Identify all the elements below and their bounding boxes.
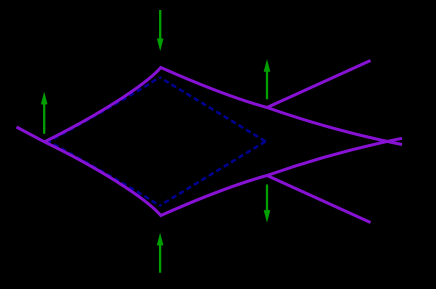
wire lower beam chain A-B-D-F-end: [17, 127, 403, 216]
dashed apparent path upper-right (node V to peak): [160, 77, 266, 141]
arrow left (up): [42, 96, 47, 134]
wire upper beam chain B-C-E-end: [45, 68, 403, 145]
wire lower branch beam at F: [267, 176, 371, 223]
arrow lower-right (down): [265, 185, 270, 219]
arrow top (down): [158, 10, 163, 47]
dashed apparent path lower-left (node B to trough): [46, 140, 160, 206]
dashed apparent path lower-right (node V to trough): [160, 141, 266, 205]
wire upper branch beam at E: [267, 61, 371, 108]
dashed apparent path upper-left (node B to peak): [46, 77, 160, 143]
arrow upper-right (up): [265, 63, 270, 99]
arrow bottom (up): [158, 237, 163, 273]
